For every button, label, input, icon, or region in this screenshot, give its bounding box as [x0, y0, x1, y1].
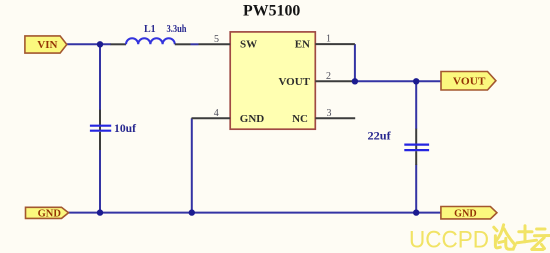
svg-text:3: 3 [327, 108, 332, 119]
svg-text:4: 4 [214, 108, 219, 119]
wire C1 bottom to GND rail [99, 150, 101, 213]
watermark CJK char LUN (hand-drawn strokes) [494, 225, 515, 250]
node junction VIN branch [97, 41, 103, 47]
node junction pin1/pin2 [352, 78, 358, 84]
pin 4 GND [192, 108, 265, 125]
inductor L1 3.3uh [111, 24, 191, 44]
svg-text:22uf: 22uf [368, 128, 392, 142]
wire pin4 down to GND rail [191, 118, 193, 212]
port GND right [441, 207, 497, 220]
svg-text:GND: GND [240, 113, 264, 125]
svg-text:NC: NC [292, 113, 308, 125]
svg-text:GND: GND [454, 208, 477, 219]
port VOUT [441, 72, 496, 91]
svg-text:2: 2 [326, 71, 331, 82]
node junction pin4/GND rail [189, 209, 195, 215]
node junction C2/GND rail [413, 209, 419, 215]
wire C2 bottom to GND rail [415, 165, 417, 213]
watermark CJK char TAN (hand-drawn strokes) [517, 226, 550, 250]
IC U1 PW5100 body [230, 3, 315, 130]
pin 5 SW [199, 34, 258, 51]
wire VOUT net horizontal [353, 80, 442, 82]
wire node A vertical down to C1 [99, 44, 101, 110]
wire inductor to pin 5 [191, 43, 199, 45]
svg-text:UCCPD: UCCPD [409, 226, 489, 253]
svg-text:1: 1 [326, 34, 331, 45]
svg-text:SW: SW [240, 39, 257, 51]
svg-text:10uf: 10uf [114, 121, 137, 135]
port VIN [25, 36, 67, 53]
svg-text:EN: EN [295, 39, 310, 51]
svg-text:VIN: VIN [37, 39, 57, 51]
wire VIN to inductor [67, 43, 111, 45]
svg-text:VOUT: VOUT [453, 75, 486, 87]
wire EN pin1 down to VOUT net [354, 44, 356, 81]
svg-text:GND: GND [38, 208, 62, 219]
wire VOUT node down to C2 [415, 81, 417, 129]
svg-text:L1: L1 [144, 24, 156, 35]
pin 2 VOUT [278, 71, 352, 88]
pin 3 NC [292, 108, 355, 125]
capacitor C2 22uf [368, 128, 430, 165]
pin 1 EN [295, 34, 355, 51]
port GND left [26, 207, 69, 219]
node junction VOUT/C2 [413, 78, 419, 84]
svg-text:VOUT: VOUT [278, 76, 310, 88]
wire GND rail horizontal [68, 212, 441, 214]
svg-text:PW5100: PW5100 [243, 3, 300, 20]
capacitor C1 10uf [90, 110, 137, 150]
node junction C1/GND rail [97, 209, 103, 215]
svg-text:5: 5 [214, 34, 219, 45]
svg-text:3.3uh: 3.3uh [167, 24, 187, 35]
